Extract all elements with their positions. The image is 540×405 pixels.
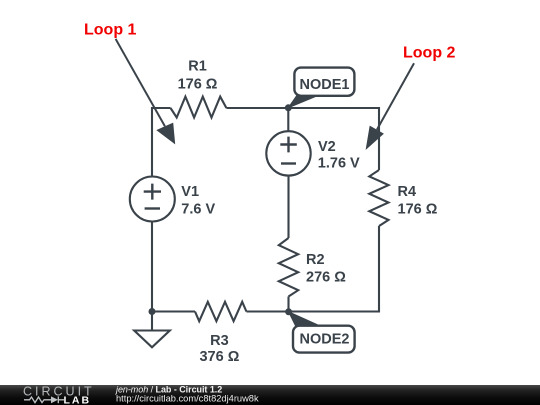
node junction dot NODE2 <box>285 308 292 315</box>
svg-text:Loop 2: Loop 2 <box>403 45 456 62</box>
wire middle upper (NODE1 to V2) <box>287 107 289 131</box>
wire right upper (top-right corner to R4) <box>378 107 380 170</box>
annotation Loop 1 arrowhead <box>156 123 175 145</box>
svg-text:NODE1: NODE1 <box>300 77 350 93</box>
footer bar <box>0 385 540 405</box>
svg-text:http://circuitlab.com/c8t82dj4: http://circuitlab.com/c8t82dj4ruw8k <box>116 393 259 403</box>
node NODE1 label box <box>294 68 354 96</box>
annotation Loop 1 arrow line <box>116 39 165 126</box>
footer logo diode triangle <box>51 396 58 403</box>
ground <box>134 312 170 348</box>
svg-text:R2: R2 <box>306 252 325 268</box>
node junction dot ground <box>149 308 156 315</box>
wire bottom-right (R3 to bottom-right corner) <box>246 310 379 312</box>
svg-text:R1: R1 <box>188 59 207 75</box>
svg-text:R4: R4 <box>398 184 417 200</box>
wire bottom-left (corner to R3) <box>151 310 195 312</box>
wire left upper (corner to V1) <box>151 107 153 177</box>
svg-text:376 Ω: 376 Ω <box>199 349 239 365</box>
node NODE2 callout pointer <box>289 312 319 326</box>
node junction dot NODE1 <box>285 104 292 111</box>
svg-text:1.76 V: 1.76 V <box>318 156 360 172</box>
voltage source V2 <box>266 131 310 175</box>
wire right lower (R4 to bottom-right corner) <box>378 226 380 313</box>
voltage source V1 <box>130 177 175 222</box>
resistor R3 <box>195 302 246 321</box>
resistor R1 <box>171 97 227 118</box>
node NODE2 label box <box>293 326 355 353</box>
footer logo resistor-diode symbol <box>24 396 64 403</box>
node NODE1 callout pointer <box>288 95 318 108</box>
svg-text:R3: R3 <box>210 333 229 349</box>
svg-text:V1: V1 <box>181 184 199 200</box>
svg-text:176 Ω: 176 Ω <box>398 201 438 217</box>
annotation Loop 2 arrow line <box>377 63 414 129</box>
wire left lower (V1 to bottom-left corner) <box>151 222 153 313</box>
svg-text:NODE2: NODE2 <box>300 331 350 347</box>
svg-text:Loop 1: Loop 1 <box>84 21 137 38</box>
annotation Loop 2 arrowhead <box>366 126 384 150</box>
svg-text:176 Ω: 176 Ω <box>178 76 218 92</box>
svg-text:7.6 V: 7.6 V <box>181 202 215 218</box>
resistor R4 <box>369 170 388 226</box>
svg-text:V2: V2 <box>318 139 336 155</box>
wire middle mid (V2 to R2) <box>287 176 289 238</box>
svg-text:LAB: LAB <box>64 394 92 405</box>
svg-text:276 Ω: 276 Ω <box>306 270 346 286</box>
wire top (R1 to top-right corner) <box>226 107 379 109</box>
resistor R2 <box>279 238 298 297</box>
wire middle lower (R2 to NODE2) <box>287 297 289 313</box>
wire top-left stub <box>152 107 171 109</box>
